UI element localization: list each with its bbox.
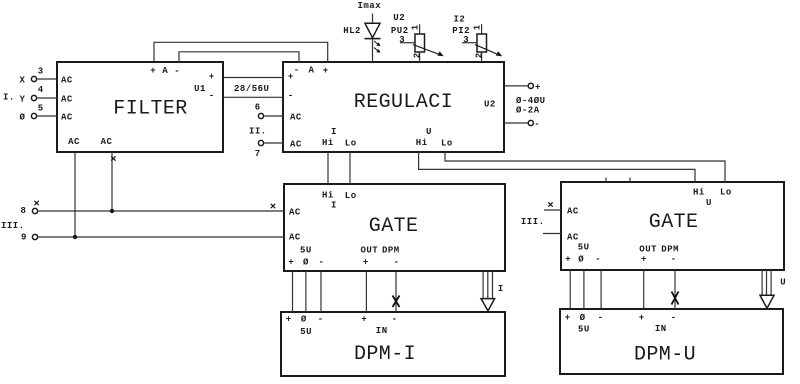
svg-text:+: +	[286, 315, 292, 325]
svg-text:Ø: Ø	[301, 315, 307, 325]
terminal 7	[255, 140, 283, 159]
svg-text:8: 8	[21, 206, 27, 216]
wire right GATE OUT+ to DPM-U IN	[643, 270, 645, 309]
svg-text:Lo: Lo	[441, 139, 453, 149]
wire right GATE - to DPM-U	[600, 270, 602, 309]
wire GATE + to DPM-I	[292, 271, 294, 312]
svg-text:DPM: DPM	[661, 245, 679, 255]
wire FILTER + to REGULACI + (outer top link)	[154, 42, 328, 62]
pin stub right GATE top a	[605, 178, 607, 182]
svg-text:Lo: Lo	[345, 139, 357, 149]
svg-text:Ø-4ØU: Ø-4ØU	[516, 96, 546, 106]
wire GATE OUT+ to DPM-I IN	[365, 271, 367, 312]
svg-text:-: -	[294, 66, 300, 76]
wire terminal 9 to GATE AC	[38, 236, 284, 238]
wire REGULACI output +	[504, 85, 528, 87]
svg-text:I.: I.	[3, 93, 15, 103]
svg-text:AC: AC	[567, 207, 579, 217]
svg-text:5U: 5U	[578, 325, 590, 335]
svg-text:U: U	[706, 198, 712, 208]
svg-text:I: I	[331, 201, 337, 211]
svg-text:+: +	[565, 254, 571, 264]
svg-text:Y: Y	[20, 95, 26, 105]
svg-text:U2: U2	[393, 13, 405, 23]
terminal Y pin 4	[20, 85, 58, 105]
svg-text:2: 2	[413, 52, 423, 58]
svg-text:-: -	[288, 91, 294, 101]
x mark at right GATE AC input	[548, 202, 552, 206]
svg-text:2: 2	[475, 52, 485, 58]
X mark on OUT- wire	[393, 296, 400, 308]
wire REGULACI output -	[504, 122, 528, 124]
svg-text:AC: AC	[290, 139, 302, 149]
svg-text:7: 7	[255, 149, 261, 159]
terminal 9	[21, 233, 38, 243]
block GATE left (current)	[284, 184, 505, 271]
svg-text:DPM-U: DPM-U	[634, 344, 696, 367]
pin stub right GATE top b	[629, 178, 631, 182]
block DPM-U	[560, 309, 783, 374]
svg-text:GATE: GATE	[649, 211, 699, 234]
wire stub right GATE AC bottom	[543, 233, 561, 235]
svg-text:+: +	[363, 258, 369, 268]
wire REGULACI I-Lo to GATE	[349, 152, 351, 184]
svg-text:IN: IN	[376, 326, 388, 336]
svg-text:+: +	[209, 72, 215, 82]
svg-text:X: X	[20, 76, 26, 86]
svg-text:+: +	[565, 313, 571, 323]
svg-text:U: U	[426, 127, 432, 137]
wire REGULACI I-Hi to GATE	[327, 152, 329, 184]
svg-text:4: 4	[38, 85, 44, 95]
svg-text:-: -	[392, 315, 398, 325]
svg-text:-: -	[319, 258, 325, 268]
trimmer PI2 (net I2)	[452, 14, 502, 62]
svg-text:-: -	[671, 313, 677, 323]
block DPM-I	[281, 312, 505, 376]
svg-text:OUT: OUT	[639, 245, 657, 255]
svg-text:9: 9	[21, 233, 27, 243]
wire terminal 8 to GATE AC	[38, 210, 284, 212]
svg-text:+: +	[288, 258, 294, 268]
svg-text:+: +	[288, 72, 294, 82]
svg-text:5U: 5U	[300, 327, 312, 337]
svg-text:Ø: Ø	[303, 258, 309, 268]
svg-text:+: +	[361, 315, 367, 325]
x mark at GATE AC input	[271, 204, 275, 208]
svg-text:AC: AC	[567, 233, 579, 243]
svg-text:GATE: GATE	[369, 215, 419, 238]
wire U1- to REGULACI (28/56U bus -)	[223, 96, 283, 98]
svg-text:DPM: DPM	[382, 246, 400, 256]
wire GATE - to DPM-I	[320, 271, 322, 312]
svg-text:AC: AC	[101, 137, 113, 147]
wire GATE OUT- to DPM-I IN	[395, 271, 397, 312]
svg-text:3: 3	[463, 35, 469, 45]
svg-text:IN: IN	[655, 324, 667, 334]
svg-text:OUT: OUT	[361, 246, 379, 256]
svg-text:II.: II.	[249, 127, 267, 137]
svg-text:-: -	[174, 67, 180, 77]
svg-text:A: A	[309, 66, 315, 76]
block U2 REGULACI	[283, 62, 504, 152]
svg-text:Ø-2A: Ø-2A	[516, 106, 540, 116]
svg-text:REGULACI: REGULACI	[354, 91, 453, 114]
bus I from GATE to DPM-I	[481, 271, 495, 311]
wire FILTER - to REGULACI - (inner top link)	[179, 52, 299, 62]
svg-text:Ø: Ø	[580, 313, 586, 323]
svg-text:U1: U1	[194, 84, 206, 94]
terminal 6	[255, 103, 283, 119]
svg-text:-: -	[595, 254, 601, 264]
block U1 FILTER	[57, 62, 223, 152]
wire stub right GATE AC top	[544, 209, 561, 211]
svg-text:-: -	[209, 91, 215, 101]
svg-text:AC: AC	[61, 75, 73, 85]
svg-text:AC: AC	[289, 208, 301, 218]
svg-text:+: +	[641, 254, 647, 264]
svg-text:Ø: Ø	[20, 113, 26, 123]
terminal X pin 3	[20, 66, 58, 85]
wire REGULACI U-Hi to right GATE	[419, 152, 695, 182]
svg-text:Hi: Hi	[693, 188, 705, 198]
svg-text:1: 1	[473, 24, 483, 30]
svg-text:-: -	[598, 313, 604, 323]
svg-text:+: +	[639, 313, 645, 323]
svg-text:AC: AC	[68, 137, 80, 147]
X mark on right OUT- wire	[672, 292, 679, 305]
wire FILTER AC down to node 8	[111, 152, 113, 211]
junction node 9/AC	[73, 235, 77, 239]
terminal 8	[21, 201, 39, 216]
svg-text:I2: I2	[454, 14, 466, 24]
svg-text:I: I	[331, 127, 337, 137]
svg-text:Hi: Hi	[322, 138, 334, 148]
svg-text:1: 1	[411, 24, 421, 30]
terminal output -	[528, 120, 533, 125]
wire FILTER AC down to node 9	[74, 152, 76, 237]
terminal 0 pin 5	[20, 103, 58, 122]
svg-text:3: 3	[399, 35, 405, 45]
svg-text:A: A	[162, 66, 168, 76]
bus U from GATE to DPM-U	[760, 270, 774, 308]
svg-text:28/56U: 28/56U	[234, 84, 269, 94]
svg-text:5U: 5U	[578, 243, 590, 253]
wire REGULACI U-Lo to right GATE	[445, 152, 725, 182]
svg-text:Hi: Hi	[322, 190, 334, 200]
svg-text:Lo: Lo	[720, 188, 732, 198]
trimmer PU2 (net U2)	[391, 13, 444, 62]
svg-text:I: I	[498, 284, 504, 294]
wire right GATE 0 to DPM-U	[583, 270, 585, 309]
svg-text:FILTER: FILTER	[113, 97, 187, 120]
svg-text:-: -	[394, 258, 400, 268]
wire U1+ to REGULACI (28/56U bus +)	[223, 77, 283, 79]
svg-text:Imax: Imax	[358, 1, 382, 11]
svg-text:U2: U2	[484, 99, 496, 109]
junction node 8/AC	[110, 209, 114, 213]
svg-text:3: 3	[38, 66, 44, 76]
svg-text:5: 5	[38, 103, 44, 113]
wire GATE 0 to DPM-I	[305, 271, 307, 312]
LED HL2	[343, 14, 380, 63]
svg-text:Ø: Ø	[578, 254, 584, 264]
svg-text:AC: AC	[290, 112, 302, 122]
x mark on AC wire	[111, 156, 115, 160]
svg-text:III.: III.	[1, 221, 25, 231]
svg-text:+: +	[150, 66, 156, 76]
wire right GATE OUT- to DPM-U IN	[674, 270, 676, 309]
svg-text:HL2: HL2	[343, 26, 361, 36]
block GATE right (voltage)	[561, 182, 784, 270]
svg-text:Hi: Hi	[416, 138, 428, 148]
terminal output +	[528, 83, 533, 88]
svg-text:-: -	[671, 254, 677, 264]
svg-text:-: -	[534, 119, 540, 129]
svg-text:-: -	[318, 315, 324, 325]
svg-text:Lo: Lo	[345, 191, 357, 201]
svg-text:AC: AC	[61, 94, 73, 104]
svg-text:+: +	[323, 66, 329, 76]
svg-text:AC: AC	[61, 112, 73, 122]
svg-text:5U: 5U	[300, 246, 312, 256]
svg-text:DPM-I: DPM-I	[354, 343, 416, 366]
svg-text:U: U	[780, 278, 786, 288]
wire right GATE + to DPM-U	[569, 270, 571, 309]
svg-text:III.: III.	[521, 217, 545, 227]
svg-text:6: 6	[255, 103, 261, 113]
svg-text:+: +	[535, 82, 541, 92]
svg-text:AC: AC	[289, 233, 301, 243]
